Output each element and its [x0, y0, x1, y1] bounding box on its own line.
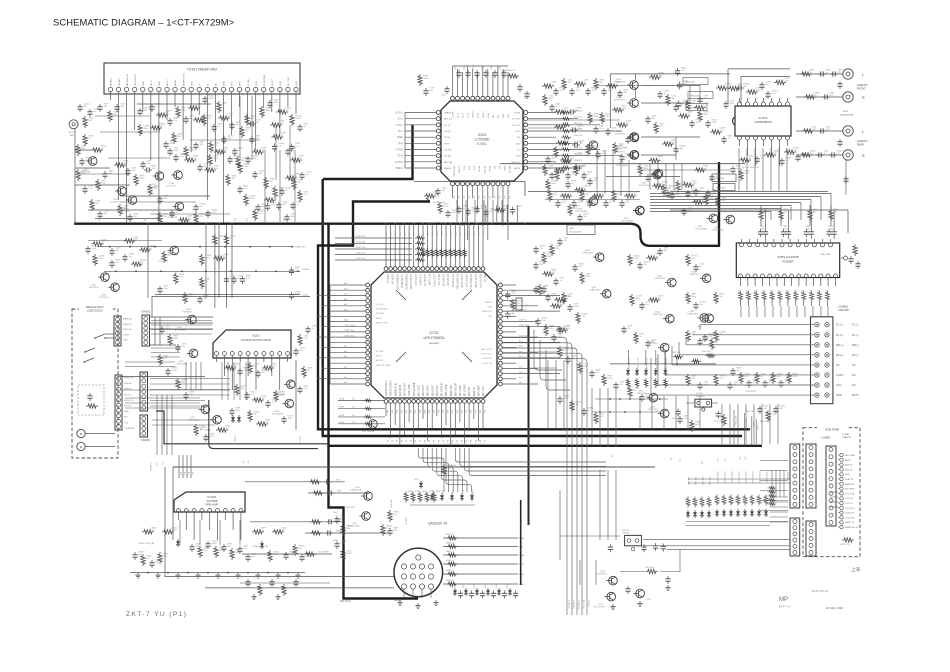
svg-text:W5B: W5B	[519, 584, 524, 586]
svg-text:(CBS-S22A): (CBS-S22A)	[87, 309, 102, 313]
svg-text:10k: 10k	[594, 202, 597, 204]
svg-text:ANT: ANT	[70, 134, 75, 137]
svg-text:A14: A14	[451, 440, 454, 443]
svg-text:C512: C512	[524, 98, 530, 100]
svg-text:LOC-EX: LOC-EX	[376, 304, 384, 306]
svg-text:REMOTE: REMOTE	[845, 484, 855, 486]
wires IC501 right outputs	[528, 113, 622, 169]
wires IC501 top	[453, 66, 509, 96]
svg-text:2.2k: 2.2k	[102, 183, 106, 185]
svg-text:KTC3875(Y): KTC3875(Y)	[614, 134, 625, 136]
svg-text:R944 22k: R944 22k	[574, 135, 582, 137]
svg-text:0.022: 0.022	[280, 394, 286, 396]
svg-text:QB02 KT2 A-3B: QB02 KT2 A-3B	[637, 357, 640, 370]
svg-text:A44: A44	[405, 410, 408, 413]
svg-text:56k: 56k	[814, 95, 817, 97]
svg-text:1u: 1u	[223, 105, 225, 107]
svg-text:W5O: W5O	[519, 564, 524, 566]
svg-text:2.2k: 2.2k	[582, 316, 586, 318]
svg-text:BTC114EKA: BTC114EKA	[272, 413, 283, 416]
svg-text:4.7u: 4.7u	[785, 382, 789, 384]
svg-text:100u: 100u	[236, 410, 240, 412]
svg-text:M: M	[80, 432, 83, 436]
svg-text:100u: 100u	[144, 128, 148, 130]
svg-text:L1S: L1S	[508, 114, 510, 118]
svg-text:A-4: A-4	[508, 196, 511, 199]
svg-text:1k: 1k	[656, 256, 658, 258]
transistors right of IC701	[583, 250, 711, 418]
svg-text:EXT 1u R951 22k: EXT 1u R951 22k	[742, 167, 759, 169]
components below IC851 left	[697, 314, 799, 423]
svg-text:2.2k: 2.2k	[182, 110, 186, 112]
svg-text:RT8A 100: RT8A 100	[447, 464, 457, 467]
svg-text:QB13: QB13	[414, 479, 419, 481]
svg-text:A11: A11	[390, 233, 393, 236]
svg-text:A19: A19	[474, 440, 477, 443]
svg-text:AUX R: AUX R	[845, 464, 852, 467]
svg-text:0.022: 0.022	[250, 198, 256, 200]
svg-text:A-3: A-3	[503, 196, 506, 199]
svg-text:1k: 1k	[810, 72, 812, 74]
extra wires below TU101	[78, 96, 295, 222]
svg-text:PBELB: PBELB	[444, 168, 452, 170]
transistors Q101-Q107	[81, 157, 184, 219]
svg-text:RR (-): RR (-)	[852, 343, 859, 347]
svg-text:P-ON(PVI): P-ON(PVI)	[235, 435, 237, 444]
svg-text:DET OUT: DET OUT	[288, 76, 290, 86]
svg-text:TU101 FAE347-A02: TU101 FAE347-A02	[187, 68, 217, 72]
svg-text:A42: A42	[395, 410, 398, 413]
svg-text:RT8A 100k: RT8A 100k	[390, 500, 393, 508]
svg-text:C505: C505	[482, 64, 484, 70]
svg-text:V1k7: V1k7	[515, 131, 521, 133]
svg-text:100k: 100k	[778, 290, 780, 294]
svg-text:RB00 100k: RB00 100k	[689, 476, 691, 485]
svg-text:RT51 22k: RT51 22k	[356, 247, 366, 249]
motor driver IC251 TA7291P	[213, 330, 291, 390]
connector CN4251 lower	[140, 415, 151, 442]
svg-text:100k: 100k	[560, 304, 564, 306]
svg-text:A18: A18	[469, 440, 472, 443]
svg-text:W5A: W5A	[519, 554, 524, 557]
svg-text:L+H: L+H	[155, 462, 157, 466]
label boxed Q4B1	[567, 225, 595, 235]
svg-text:2.2k: 2.2k	[271, 205, 275, 207]
extra wires upper right	[528, 85, 730, 190]
svg-text:RT82: RT82	[422, 491, 427, 493]
wire long rail y181	[414, 181, 525, 183]
svg-text:100k: 100k	[568, 296, 572, 298]
svg-text:FL (-): FL (-)	[852, 323, 858, 327]
svg-text:A-4: A-4	[234, 217, 237, 221]
svg-text:VDD: VDD	[488, 307, 493, 309]
svg-text:MPX: MPX	[240, 81, 242, 86]
svg-text:10k: 10k	[101, 148, 104, 150]
svg-text:2SC2412K: 2SC2412K	[110, 202, 120, 204]
svg-text:0.022: 0.022	[347, 553, 353, 555]
components around IC1141	[716, 78, 807, 181]
transistors Q751 Q752 Q753	[580, 560, 652, 610]
svg-text:A16: A16	[460, 440, 463, 443]
svg-text:E-VOL: E-VOL	[477, 142, 487, 146]
svg-text:10k: 10k	[104, 213, 107, 215]
svg-text:Tun (R): Tun (R)	[444, 150, 452, 152]
svg-text:L CON: L CON	[453, 111, 455, 118]
svg-text:AGND: AGND	[174, 79, 177, 86]
svg-text:F/R SW: F/R SW	[124, 406, 133, 408]
svg-text:MD-3 OUT: MD-3 OUT	[428, 384, 430, 396]
svg-text:Run: Run	[124, 417, 129, 419]
svg-text:CD BEEP SEL: CD BEEP SEL	[469, 274, 471, 290]
svg-text:1u: 1u	[295, 269, 297, 271]
svg-text:COMMON: COMMON	[149, 462, 151, 471]
svg-text:P-CN(1141): P-CN(1141)	[577, 600, 579, 610]
svg-text:4.7u: 4.7u	[720, 130, 724, 132]
wires preamp to DIN	[165, 467, 394, 588]
svg-text:GND: GND	[143, 81, 145, 86]
svg-text:12k: 12k	[259, 173, 262, 175]
svg-text:100k: 100k	[818, 290, 820, 294]
svg-text:2.2k: 2.2k	[434, 194, 438, 196]
svg-text:BTC114EKA: BTC114EKA	[712, 229, 724, 232]
svg-text:POWER: POWER	[782, 260, 794, 264]
svg-text:C503: C503	[464, 64, 466, 70]
svg-text:100k: 100k	[737, 168, 741, 170]
svg-text:L: L	[862, 130, 864, 134]
svg-text:Run: Run	[161, 462, 163, 465]
svg-text:A1: A1	[391, 440, 394, 442]
svg-text:FR-L: FR-L	[337, 491, 342, 493]
svg-text:RT2: RT2	[468, 166, 470, 171]
wires IC701 bottom	[386, 403, 486, 447]
svg-text:BPF LAMP: BPF LAMP	[428, 274, 431, 286]
svg-text:12k: 12k	[101, 242, 104, 244]
svg-text:1k: 1k	[300, 158, 302, 160]
component field right of IC701	[554, 248, 739, 433]
svg-text:0.022: 0.022	[172, 370, 178, 372]
svg-text:10k: 10k	[672, 98, 675, 100]
svg-text:A58: A58	[469, 410, 472, 413]
svg-text:0.022: 0.022	[784, 80, 790, 82]
wires IC701 left	[330, 282, 366, 384]
svg-text:PST9130: PST9130	[696, 396, 705, 398]
svg-text:4.7u: 4.7u	[511, 293, 515, 295]
svg-text:BMT IN CNF: BMT IN CNF	[455, 382, 457, 396]
svg-text:1u: 1u	[700, 266, 702, 268]
svg-text:D804: D804	[485, 584, 487, 588]
svg-text:X-IN: X-IN	[488, 316, 493, 318]
svg-text:B-VR: B-VR	[296, 80, 298, 86]
svg-text:330: 330	[652, 118, 656, 120]
svg-text:BATT(1/4): BATT(1/4)	[340, 600, 351, 603]
svg-text:47k: 47k	[769, 382, 772, 384]
svg-text:L1T3: L1T3	[468, 112, 470, 118]
wires fan to bottom	[560, 470, 620, 560]
svg-text:1u: 1u	[612, 130, 614, 132]
svg-text:KTC3875(Y): KTC3875(Y)	[614, 100, 625, 102]
svg-text:X701: X701	[524, 305, 530, 307]
reset IC1343 PST9130	[672, 393, 726, 426]
svg-text:RA15 1k: RA15 1k	[446, 569, 455, 572]
svg-text:FRONT: FRONT	[857, 88, 866, 91]
preamp net dots	[147, 520, 289, 573]
svg-text:QAN202K X5: QAN202K X5	[428, 522, 447, 526]
svg-text:A5: A5	[409, 440, 412, 442]
op-amp IC1201 KIA4558 PRE-AMP	[174, 492, 245, 540]
svg-text:IC501: IC501	[478, 133, 487, 137]
svg-text:A8: A8	[423, 440, 426, 442]
svg-text:100k: 100k	[762, 290, 764, 294]
wires bus stubs to IC701 left	[317, 295, 330, 380]
svg-text:22k: 22k	[586, 194, 589, 196]
svg-text:100u: 100u	[174, 338, 178, 340]
svg-text:VCC: VCC	[232, 81, 234, 86]
svg-text:R: R	[862, 96, 865, 100]
svg-text:RA12 1k: RA12 1k	[446, 542, 455, 545]
svg-text:12k: 12k	[96, 203, 99, 205]
wire bus B4 batt	[329, 224, 763, 446]
svg-text:0.022: 0.022	[634, 258, 640, 260]
svg-text:56k: 56k	[704, 98, 707, 100]
svg-text:NC: NC	[852, 363, 856, 367]
svg-text:A-1: A-1	[458, 196, 461, 199]
svg-text:4.7u: 4.7u	[188, 218, 192, 220]
svg-text:R863 2.7k: R863 2.7k	[760, 421, 769, 423]
svg-text:BD CONF2: BD CONF2	[465, 384, 467, 396]
svg-text:A10: A10	[432, 440, 435, 443]
svg-text:A-2: A-2	[498, 196, 501, 199]
svg-text:A+5: A+5	[669, 457, 672, 460]
components above bus center	[424, 188, 523, 223]
svg-text:IC1341: IC1341	[622, 530, 630, 532]
svg-text:6u3: 6u3	[251, 118, 255, 120]
svg-text:1k: 1k	[308, 370, 310, 372]
svg-text:FM VT: FM VT	[151, 79, 153, 86]
svg-text:A56: A56	[460, 410, 463, 413]
svg-text:KTA1270(Y): KTA1270(Y)	[655, 277, 666, 280]
svg-text:10k: 10k	[166, 113, 169, 115]
diode row DIN harness	[390, 479, 475, 525]
svg-text:RT54: RT54	[473, 490, 475, 494]
svg-text:KPA226M: KPA226M	[183, 311, 192, 314]
svg-text:0.022: 0.022	[296, 118, 302, 120]
svg-text:56k: 56k	[700, 304, 703, 306]
svg-text:AUX IN: AUX IN	[845, 468, 853, 471]
svg-text:L5 IN: L5 IN	[488, 112, 490, 118]
svg-text:RA11 1k: RA11 1k	[446, 533, 455, 536]
svg-text:GND: GND	[280, 81, 282, 86]
svg-text:4.7u: 4.7u	[772, 93, 776, 95]
svg-text:6u3: 6u3	[696, 424, 700, 426]
svg-text:A-2: A-2	[242, 460, 245, 463]
svg-text:AUX (L): AUX (L)	[444, 118, 452, 121]
svg-text:RT62 12k: RT62 12k	[356, 258, 366, 260]
svg-text:R471 820: R471 820	[645, 567, 655, 569]
connector CN4852 upper	[788, 444, 800, 508]
svg-text:GRV CONT: GRV CONT	[481, 349, 493, 351]
svg-text:A13: A13	[399, 233, 402, 236]
svg-text:330: 330	[347, 528, 351, 530]
svg-text:0.022: 0.022	[86, 160, 92, 162]
connector mecha lower	[115, 375, 135, 430]
wires right-of-IC701 to bus	[527, 352, 700, 447]
label boxed R963a	[683, 78, 708, 85]
junction dots buses right	[566, 428, 617, 447]
svg-text:NC: NC	[498, 114, 500, 118]
svg-text:47k: 47k	[182, 382, 185, 384]
svg-text:FM RX/LOC: FM RX/LOC	[135, 74, 137, 86]
svg-text:47k: 47k	[226, 428, 229, 430]
svg-text:B2 AT1 WU O1: B2 AT1 WU O1	[812, 590, 829, 593]
svg-text:E-VOL CONF: E-VOL CONF	[474, 274, 476, 289]
svg-text:P-ON(1141): P-ON(1141)	[293, 247, 305, 249]
svg-text:RT67 12k: RT67 12k	[519, 335, 529, 337]
svg-text:10k: 10k	[548, 256, 551, 258]
svg-text:VBELB: VBELB	[444, 113, 452, 115]
svg-text:BEEP OUT: BEEP OUT	[451, 384, 453, 396]
svg-text:100k: 100k	[825, 290, 827, 294]
svg-text:RT63 12k: RT63 12k	[356, 253, 366, 255]
svg-text:R434 4.7k: R434 4.7k	[714, 421, 722, 423]
svg-text:A119: A119	[473, 232, 476, 236]
net labels below bus right	[610, 454, 747, 464]
svg-text:0.022: 0.022	[172, 530, 178, 532]
crystal X701 with load capacitors	[505, 286, 546, 319]
svg-text:1u: 1u	[556, 106, 558, 108]
svg-text:4.7u: 4.7u	[394, 514, 398, 516]
wires IC501 left inputs	[395, 112, 436, 171]
svg-text:4.7u: 4.7u	[246, 278, 250, 280]
svg-text:QB51 KT2A-3B: QB51 KT2A-3B	[724, 470, 727, 483]
svg-text:0.022: 0.022	[812, 129, 818, 131]
svg-text:1k: 1k	[761, 376, 763, 378]
wire loop tops	[728, 68, 790, 70]
svg-text:M: M	[80, 445, 83, 449]
svg-text:A12: A12	[394, 233, 397, 236]
svg-text:A20: A20	[478, 440, 481, 443]
svg-text:A14: A14	[404, 233, 407, 236]
svg-text:A+4: A+4	[183, 472, 186, 475]
svg-text:A52: A52	[441, 410, 444, 413]
connector mecha upper	[114, 316, 133, 346]
wires connective pass	[88, 86, 849, 241]
svg-text:D801: D801	[452, 584, 454, 588]
svg-text:L+H: L+H	[124, 422, 128, 424]
component field NE of IC701	[533, 238, 573, 343]
svg-text:A+5: A+5	[739, 456, 742, 459]
svg-text:10k: 10k	[242, 160, 245, 162]
svg-text:A54: A54	[451, 410, 454, 413]
svg-text:100k: 100k	[424, 78, 428, 80]
svg-text:SIG/VT: SIG/VT	[272, 78, 274, 86]
wire long rail y74	[610, 73, 730, 75]
svg-text:BTC114EKA: BTC114EKA	[622, 220, 634, 223]
svg-text:A6: A6	[414, 440, 417, 442]
svg-text:12k: 12k	[564, 240, 567, 242]
svg-text:2.2k: 2.2k	[147, 163, 151, 165]
svg-text:10k: 10k	[780, 408, 783, 410]
svg-text:FM ANT: FM ANT	[118, 77, 121, 86]
svg-text:ZKT-7 YU: ZKT-7 YU	[779, 605, 790, 609]
wires TU101 pin drops	[111, 92, 297, 223]
svg-text:100k: 100k	[753, 382, 757, 384]
svg-text:12k: 12k	[298, 182, 301, 184]
svg-text:AUX L: AUX L	[845, 459, 852, 462]
svg-text:上海: 上海	[851, 566, 860, 573]
svg-text:CD-R: CD-R	[397, 156, 403, 158]
svg-text:100u: 100u	[692, 296, 696, 298]
svg-text:12k: 12k	[244, 548, 247, 550]
svg-text:LCD CE: LCD CE	[845, 498, 854, 500]
svg-text:22k: 22k	[394, 530, 397, 532]
svg-text:1u: 1u	[292, 150, 294, 152]
svg-text:A-3: A-3	[468, 196, 471, 199]
svg-text:BNT IN: BNT IN	[508, 166, 510, 174]
svg-text:BEEP IN: BEEP IN	[474, 387, 476, 396]
svg-text:RESET: RESET	[485, 302, 493, 304]
svg-text:1k: 1k	[218, 238, 220, 240]
svg-text:A46: A46	[414, 410, 417, 413]
svg-text:22k: 22k	[352, 399, 355, 401]
svg-text:KEY REQ: KEY REQ	[845, 489, 855, 491]
svg-text:4.7u: 4.7u	[180, 156, 184, 158]
svg-text:10k: 10k	[139, 554, 142, 556]
svg-text:1k: 1k	[702, 200, 704, 202]
svg-text:CD 4CC CONT: CD 4CC CONT	[409, 274, 411, 290]
svg-text:56k: 56k	[600, 82, 603, 84]
svg-text:2.2k: 2.2k	[684, 418, 688, 420]
svg-text:RR IN: RR IN	[514, 168, 520, 170]
svg-text:IC1343: IC1343	[696, 393, 703, 395]
svg-text:A114: A114	[450, 232, 453, 236]
svg-text:TP-R: TP-R	[398, 143, 404, 145]
svg-text:100k: 100k	[92, 248, 96, 250]
wires QB cluster to CN4852	[770, 470, 788, 522]
svg-text:NC: NC	[852, 383, 856, 387]
svg-text:22k: 22k	[472, 210, 475, 212]
svg-text:MD CONF: MD CONF	[479, 385, 481, 396]
svg-text:22k: 22k	[270, 181, 273, 183]
svg-text:A10: A10	[385, 233, 388, 236]
svg-text:10k: 10k	[681, 70, 684, 72]
svg-text:JK2402W BN: JK2402W BN	[840, 115, 854, 117]
svg-text:1k: 1k	[658, 158, 660, 160]
svg-text:MPL CONF: MPL CONF	[446, 384, 448, 396]
svg-text:PL OUT: PL OUT	[512, 119, 520, 121]
svg-text:0.022: 0.022	[704, 340, 710, 342]
volume IC501 LC75342E E-VOL	[436, 96, 527, 185]
svg-text:22k: 22k	[156, 562, 159, 564]
label boxed R847	[713, 184, 735, 191]
svg-text:BUTT: BUTT	[852, 393, 859, 397]
svg-text:A17: A17	[465, 440, 468, 443]
svg-text:E-VOL CONT: E-VOL CONT	[460, 274, 462, 289]
wires IC701 right	[502, 285, 560, 384]
svg-text:A15: A15	[455, 440, 458, 443]
svg-text:56k: 56k	[168, 255, 171, 257]
svg-text:CD (R): CD (R)	[444, 156, 451, 158]
svg-text:1u: 1u	[560, 280, 562, 282]
wires mecha to main board	[149, 379, 230, 472]
svg-text:100k: 100k	[730, 103, 734, 105]
svg-text:56k: 56k	[682, 184, 685, 186]
svg-text:330: 330	[164, 198, 168, 200]
svg-text:100k: 100k	[754, 290, 756, 294]
svg-text:100u: 100u	[756, 90, 760, 92]
diode column QB01-QB05	[610, 351, 716, 388]
svg-text:SUB M CONT1: SUB M CONT1	[386, 380, 388, 396]
svg-text:1u: 1u	[634, 390, 636, 392]
